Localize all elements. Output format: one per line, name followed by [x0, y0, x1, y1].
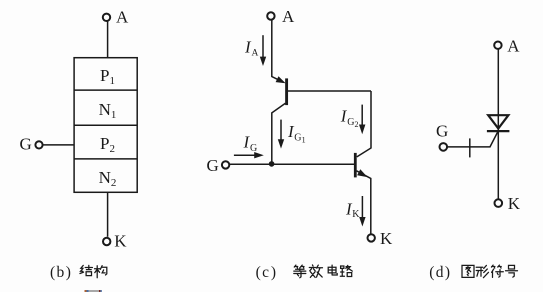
- svg-text:): ): [66, 264, 71, 281]
- transistor Q2 emitter arrow: [357, 169, 367, 177]
- transistor Q2 emitter lead: [357, 171, 371, 234]
- svg-text:A: A: [252, 48, 259, 58]
- transistor Q1 bar: [285, 78, 288, 105]
- layer divider P1/N1: [74, 89, 137, 91]
- caption (c) dengxiao dianlu: [256, 264, 353, 281]
- svg-text:(: (: [429, 264, 434, 281]
- layer stack box: [74, 58, 137, 193]
- terminal A (b): [103, 14, 110, 21]
- base wire Q1 to right branch: [288, 90, 371, 92]
- thyristor triangle: [488, 115, 508, 128]
- current arrow IK: [361, 196, 363, 219]
- svg-text:G: G: [347, 117, 354, 128]
- current arrow IG: [234, 154, 257, 156]
- transistor Q1 collector lead: [272, 103, 286, 164]
- svg-text:G: G: [294, 133, 301, 144]
- terminal A (c): [267, 12, 274, 19]
- transistor Q2 bar: [354, 153, 357, 178]
- svg-text:G: G: [207, 156, 219, 175]
- svg-text:G: G: [250, 143, 257, 154]
- wire A to stack (b): [107, 21, 109, 57]
- svg-text:K: K: [380, 229, 393, 248]
- terminal K (b): [103, 238, 110, 245]
- wire G to Q2 base: [229, 163, 354, 165]
- svg-text:K: K: [508, 194, 521, 213]
- wire A down (c): [272, 20, 284, 83]
- svg-text:G: G: [436, 121, 448, 140]
- svg-text:K: K: [114, 232, 127, 251]
- svg-text:(: (: [256, 264, 261, 281]
- thyristor cathode bar: [487, 130, 510, 132]
- svg-text:G: G: [20, 135, 32, 154]
- terminal K (d): [495, 199, 503, 207]
- gate tick mark: [469, 138, 471, 157]
- svg-text:c: c: [262, 264, 269, 281]
- bottom cut-off glyph artifact: [85, 290, 102, 292]
- svg-text:A: A: [282, 7, 295, 26]
- caption (b) jiegou: [50, 264, 107, 281]
- current arrow IG2: [361, 105, 363, 127]
- current arrow IA: [262, 35, 264, 59]
- right branch vertical wire: [357, 91, 371, 157]
- wire thyristor to K: [497, 131, 499, 199]
- svg-text:): ): [445, 264, 450, 281]
- svg-text:(: (: [50, 264, 55, 281]
- caption (d) tuxing fuhao: [429, 264, 517, 281]
- wire G to stack (b): [43, 144, 75, 146]
- node junction dot: [269, 161, 275, 167]
- svg-text:1: 1: [302, 135, 306, 144]
- terminal A (d): [494, 42, 501, 49]
- svg-text:A: A: [116, 8, 129, 27]
- wire A to thyristor: [497, 49, 499, 132]
- svg-text:d: d: [436, 264, 444, 281]
- svg-text:K: K: [352, 209, 360, 220]
- current arrow IG1: [280, 120, 282, 142]
- wire stack to K (b): [107, 192, 109, 237]
- gate wire: [447, 131, 498, 147]
- layer divider N1/P2: [74, 124, 137, 126]
- layer divider P2/N2: [74, 158, 137, 160]
- svg-text:b: b: [57, 264, 65, 281]
- transistor Q1 emitter arrow: [276, 76, 286, 83]
- svg-text:): ): [271, 264, 276, 281]
- svg-text:A: A: [507, 36, 520, 55]
- svg-text:2: 2: [355, 120, 359, 129]
- terminal K (c): [368, 234, 375, 241]
